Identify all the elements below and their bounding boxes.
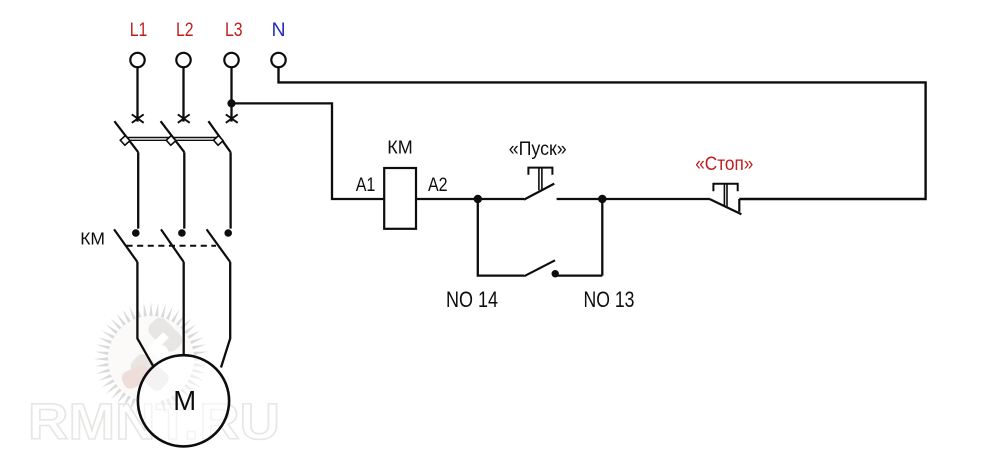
svg-text:A1: A1: [356, 174, 376, 196]
svg-text:КМ: КМ: [387, 137, 412, 157]
svg-text:«Стоп»: «Стоп»: [695, 153, 753, 175]
svg-text:«Пуск»: «Пуск»: [509, 138, 567, 160]
svg-text:NO 13: NO 13: [584, 287, 635, 312]
svg-text:A2: A2: [428, 174, 448, 196]
svg-text:L3: L3: [225, 19, 243, 41]
svg-text:N: N: [271, 19, 285, 41]
svg-text:L2: L2: [176, 19, 194, 41]
svg-text:NO 14: NO 14: [446, 287, 498, 312]
svg-text:L1: L1: [130, 19, 148, 41]
svg-text:КМ: КМ: [80, 229, 105, 249]
